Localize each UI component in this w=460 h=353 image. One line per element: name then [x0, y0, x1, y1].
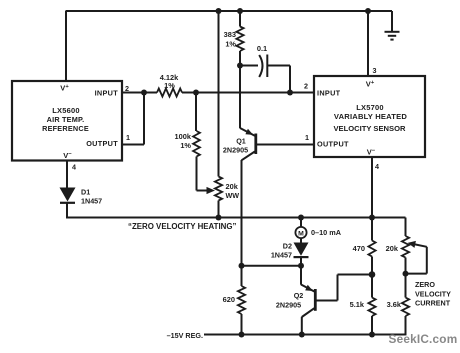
- wire 5.1k bottom lead: [371, 316, 373, 335]
- node junction 5.1k / -15V rail: [369, 332, 375, 338]
- svg-text:Q2: Q2: [294, 291, 304, 300]
- wire 620 node to D2 node: [242, 265, 302, 267]
- wire top supply rail: [66, 10, 393, 12]
- svg-text:AIR TEMP.: AIR TEMP.: [47, 115, 85, 124]
- wire 100k top lead: [195, 93, 197, 132]
- resistor R 100k 1%: [175, 131, 200, 157]
- resistor R 5.1k: [350, 298, 376, 317]
- pin 4 label U2: [375, 162, 379, 171]
- wire 620 leads: [241, 266, 243, 335]
- wire meter to D2: [300, 238, 302, 243]
- svg-text:0.1: 0.1: [257, 44, 267, 53]
- node junction meter / heating rail: [298, 215, 304, 221]
- pin 1 label U1: [126, 133, 130, 142]
- wire 383 top lead: [239, 11, 241, 27]
- resistor R 620: [223, 286, 245, 314]
- op-amp U1 LX5600 air temp reference: [12, 81, 122, 161]
- wiper arrow into 20k: [408, 241, 427, 248]
- wiper arrow into 20k WW: [207, 187, 216, 194]
- svg-text:1%: 1%: [180, 141, 191, 150]
- svg-text:OUTPUT: OUTPUT: [317, 140, 349, 149]
- svg-text:2N2905: 2N2905: [276, 301, 301, 310]
- svg-text:M: M: [298, 230, 304, 237]
- transistor Q1 2N2905: [223, 128, 256, 160]
- wire U1 input line: [122, 92, 157, 94]
- svg-text:20k: 20k: [386, 244, 399, 253]
- wire ground stub: [391, 11, 393, 32]
- svg-text:LX5600: LX5600: [52, 106, 79, 115]
- node junction 20k wiper / 3.6k: [403, 271, 409, 277]
- svg-text:1%: 1%: [225, 40, 236, 49]
- node junction top rail / 383 branch: [237, 8, 243, 14]
- potentiometer R 20k WW: [215, 177, 239, 201]
- node junction cap / input line: [287, 90, 293, 96]
- node junction D2 / Q2 emitter / 620 wire: [298, 263, 304, 269]
- op-amp U2 LX5700 velocity sensor: [314, 76, 425, 157]
- wire Q2 emitter vertical: [300, 266, 302, 285]
- node junction 620 / -15V rail: [239, 332, 245, 338]
- svg-text:2N2905: 2N2905: [223, 146, 248, 155]
- svg-text:CURRENT: CURRENT: [415, 299, 451, 308]
- node label zero velocity heating: [128, 222, 236, 231]
- pin 3 label U2: [373, 66, 377, 75]
- node junction feedback / input: [141, 90, 147, 96]
- node junction 470 / 5.1k / Q2 base: [369, 271, 376, 278]
- svg-text:INPUT: INPUT: [95, 89, 119, 98]
- wire V+ drop to U1: [65, 11, 67, 81]
- svg-text:REFERENCE: REFERENCE: [42, 124, 89, 133]
- watermark SeekIC.com: [389, 332, 458, 346]
- pin 2 label U1: [125, 84, 129, 93]
- wire vertical to U2 pin 3: [367, 11, 369, 76]
- svg-text:WW: WW: [226, 191, 240, 200]
- svg-text:1N457: 1N457: [81, 197, 102, 206]
- node junction input / 100k: [193, 90, 199, 96]
- wire 5.1k top lead: [371, 275, 373, 298]
- svg-text:470: 470: [353, 244, 365, 253]
- wire D2 bottom lead: [300, 257, 302, 266]
- svg-text:“ZERO VELOCITY HEATING”: “ZERO VELOCITY HEATING”: [128, 222, 236, 231]
- svg-text:2: 2: [304, 82, 308, 91]
- svg-text:1N457: 1N457: [271, 251, 292, 260]
- svg-text:D1: D1: [81, 188, 90, 197]
- svg-text:VARIABLY HEATED: VARIABLY HEATED: [334, 112, 407, 121]
- ground: [385, 32, 400, 40]
- potentiometer R 20k zero velocity current: [386, 236, 409, 258]
- wire Q1 emitter vertical: [239, 66, 241, 129]
- svg-text:INPUT: INPUT: [317, 89, 341, 98]
- svg-text:4: 4: [72, 163, 76, 172]
- svg-text:3.6k: 3.6k: [387, 300, 402, 309]
- wire Q1 base to U2 output: [256, 144, 314, 146]
- pin 2 label U2: [304, 82, 308, 91]
- wire zero velocity heating rail: [66, 217, 405, 219]
- wire D1 to heating rail: [66, 203, 68, 219]
- svg-text:5.1k: 5.1k: [350, 300, 365, 309]
- svg-text:VELOCITY SENSOR: VELOCITY SENSOR: [333, 124, 406, 133]
- resistor R 383 1%: [224, 27, 244, 52]
- wire Q1 collector vertical: [241, 160, 243, 266]
- svg-text:100k: 100k: [175, 132, 192, 141]
- pin 1 label U2: [305, 133, 309, 142]
- diode D2 1N457: [271, 242, 309, 260]
- node junction top rail / 20k WW branch: [216, 8, 222, 14]
- svg-text:Q1: Q1: [236, 137, 246, 146]
- node label zero velocity current: [415, 280, 451, 308]
- svg-text:SeekIC.com: SeekIC.com: [389, 332, 458, 346]
- svg-text:4: 4: [375, 162, 379, 171]
- wire 383 bottom lead: [239, 51, 241, 66]
- svg-text:ZERO: ZERO: [415, 280, 435, 289]
- svg-text:20k: 20k: [226, 182, 239, 191]
- node junction 383 / 0.1 cap / Q1 emitter: [237, 63, 243, 69]
- wire 3.6k top lead: [405, 274, 407, 298]
- diode D1 1N457: [60, 188, 103, 206]
- svg-text:–15V REG.: –15V REG.: [167, 331, 203, 340]
- svg-text:1: 1: [305, 133, 309, 142]
- wire meter top lead: [300, 218, 302, 228]
- wire cap left lead: [240, 65, 258, 67]
- svg-text:LX5700: LX5700: [356, 103, 383, 112]
- node junction pin4 / 470 / heating rail: [369, 215, 375, 221]
- svg-text:383: 383: [224, 30, 236, 39]
- power -15V REG: [167, 331, 406, 340]
- svg-text:VELOCITY: VELOCITY: [415, 289, 451, 298]
- wire 470 bottom lead: [371, 257, 373, 275]
- resistor R 3.6k: [387, 298, 409, 317]
- svg-text:OUTPUT: OUTPUT: [86, 139, 118, 148]
- svg-text:3: 3: [373, 66, 377, 75]
- wire vertical branch to 20k WW pot: [218, 11, 220, 177]
- wire Q2 collector vertical: [301, 317, 303, 335]
- wire 20k bottom lead: [405, 258, 407, 274]
- node junction Q2 collector / -15V rail: [299, 332, 305, 338]
- svg-text:620: 620: [223, 295, 235, 304]
- wire 20k WW bottom lead: [218, 201, 220, 219]
- capacitor C 0.1: [257, 44, 267, 77]
- svg-text:1: 1: [126, 133, 130, 142]
- wire wiper return: [406, 247, 427, 274]
- node junction 20k WW / heating rail: [216, 215, 222, 221]
- svg-text:D2: D2: [283, 242, 292, 251]
- transistor Q2 2N2905: [276, 285, 315, 318]
- resistor R 470: [353, 241, 376, 257]
- wire input line mid: [182, 92, 314, 94]
- meter M 0-10 mA: [295, 227, 341, 238]
- node junction top rail / U2 pin 3 branch: [365, 8, 371, 14]
- wire 470 top lead: [371, 218, 373, 241]
- wire cap right lead to input node: [267, 66, 290, 93]
- wire 100k to wiper: [197, 157, 209, 191]
- node junction Q1 collector / 620: [239, 263, 245, 269]
- resistor R 4.12k 1%: [157, 73, 182, 97]
- wire Q2 base path: [315, 275, 372, 301]
- wire 3.6k bottom lead: [405, 316, 407, 335]
- wire U2 pin 4 drop: [371, 157, 373, 218]
- wire U1 V- to D1: [66, 161, 68, 189]
- svg-text:0–10 mA: 0–10 mA: [311, 228, 342, 237]
- wire heating rail corner to 20k pot: [405, 218, 407, 237]
- pin 4 label U1: [72, 163, 76, 172]
- wire U1 output feedback: [122, 93, 144, 145]
